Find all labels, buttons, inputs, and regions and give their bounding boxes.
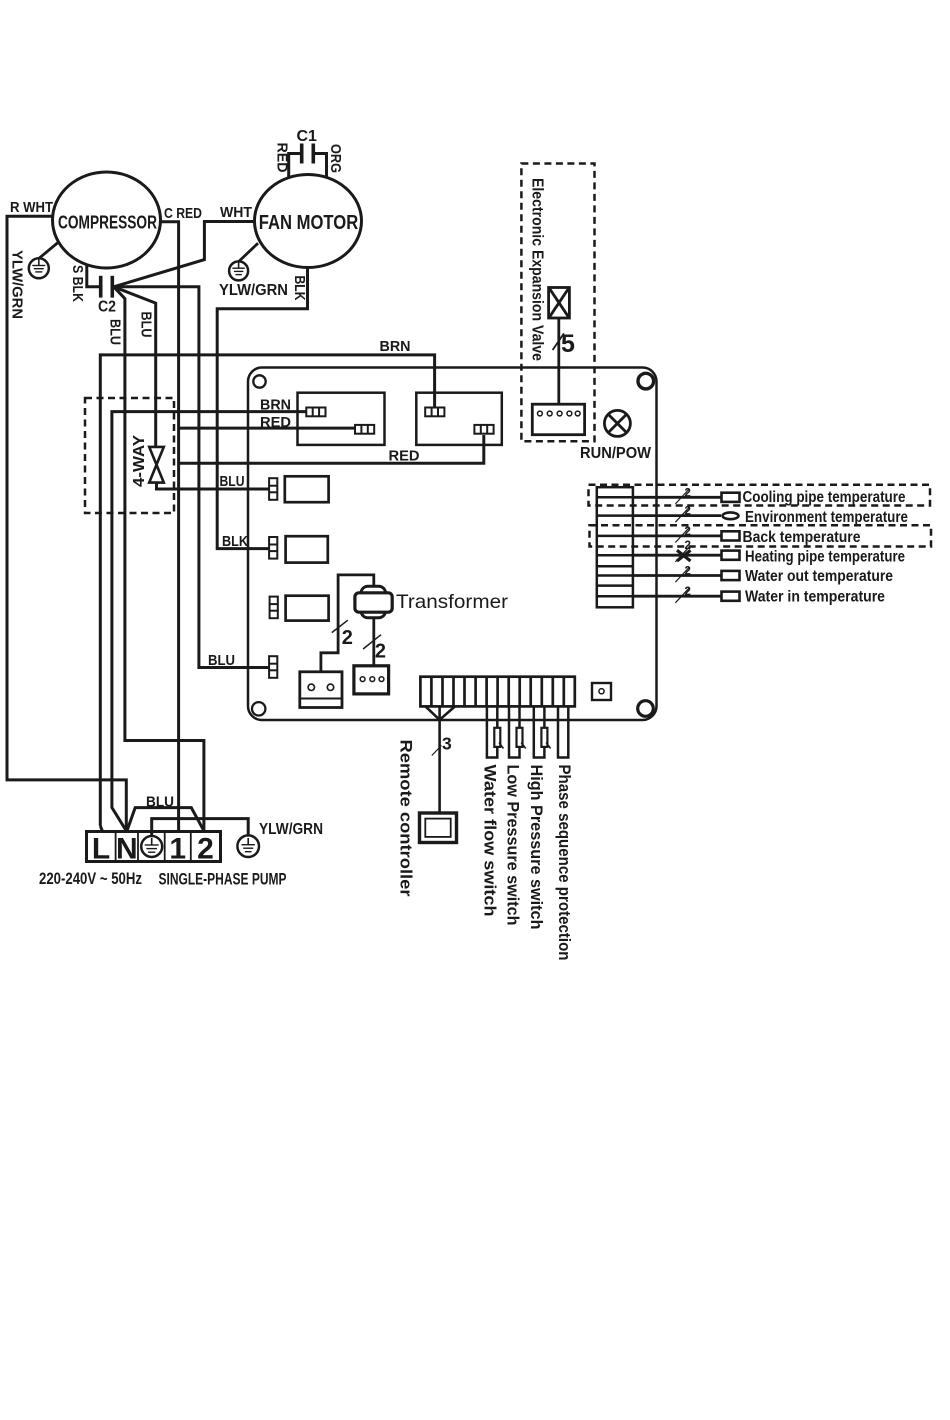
dashed box cooling sensor	[589, 485, 931, 506]
connector relay1 bottom 3-pin	[355, 425, 374, 434]
terminal block	[87, 832, 221, 862]
left connector 3	[270, 597, 278, 619]
svg-text:Cooling pipe temperature: Cooling pipe temperature	[743, 489, 906, 506]
slash 5	[553, 333, 564, 350]
svg-text:BLU: BLU	[107, 319, 124, 345]
svg-text:BLU: BLU	[220, 473, 245, 490]
svg-text:Environment temperature: Environment temperature	[745, 509, 908, 526]
switch symbol high pressure	[541, 728, 550, 749]
dashed box back sensor	[590, 525, 932, 546]
svg-text:BRN: BRN	[380, 338, 411, 355]
dashed box electronic expansion valve	[521, 164, 594, 442]
svg-text:FAN MOTOR: FAN MOTOR	[259, 212, 359, 234]
wire R WHT from compressor to left edge and down	[7, 216, 126, 831]
relay box 1	[298, 393, 385, 445]
svg-text:RED: RED	[389, 448, 420, 465]
sensor terminal stack	[597, 487, 633, 607]
svg-text:BLU: BLU	[138, 312, 155, 338]
svg-text:3: 3	[442, 734, 452, 754]
slash 3 remote	[432, 746, 442, 756]
capacitor C1	[289, 144, 327, 178]
wire BLU3 C2 to 4-way valve	[114, 287, 156, 447]
wire BLK fan motor to board connector 2	[217, 267, 307, 548]
pcb board outline	[248, 368, 657, 721]
wire RED into relay1 lower connector	[179, 427, 356, 430]
svg-text:BLK: BLK	[222, 533, 248, 550]
svg-text:R WHT: R WHT	[10, 199, 53, 216]
hole top-right	[638, 373, 654, 389]
dashed box 4-WAY	[85, 398, 174, 513]
2-hole connector box	[300, 672, 342, 708]
relay coil box 3	[286, 596, 329, 621]
svg-text:2: 2	[685, 526, 691, 538]
ground pump	[237, 835, 259, 857]
switch U wire 3 high pressure	[534, 706, 545, 757]
hole bottom-right	[638, 701, 654, 717]
svg-text:BLK: BLK	[291, 276, 308, 301]
svg-text:Water flow switch: Water flow switch	[480, 765, 498, 917]
sensor wires	[633, 497, 721, 596]
thermistor cooling	[722, 493, 740, 502]
wire BRN1 from N-drop into relay1 upper connector	[112, 412, 307, 831]
svg-text:4-WAY: 4-WAY	[131, 434, 148, 487]
svg-text:L: L	[92, 833, 110, 866]
svg-text:YLW/GRN: YLW/GRN	[259, 821, 323, 838]
ground compressor	[29, 243, 58, 279]
fan motor M2	[255, 175, 362, 268]
svg-text:2: 2	[685, 506, 691, 518]
svg-text:Water in temperature: Water in temperature	[745, 589, 885, 606]
thermistor environment (ellipse)	[723, 512, 739, 519]
svg-text:Phase sequence protection: Phase sequence protection	[555, 765, 573, 961]
svg-text:Remote controller: Remote controller	[397, 740, 416, 897]
transformer T1	[355, 586, 392, 618]
svg-text:1: 1	[169, 833, 186, 866]
svg-text:YLW/GRN: YLW/GRN	[219, 282, 288, 299]
svg-text:C RED: C RED	[164, 205, 202, 222]
svg-text:2: 2	[197, 833, 214, 866]
switch U wire 1 water flow	[487, 706, 497, 757]
wire pump earth	[152, 819, 249, 837]
wire transformer secondary bottom	[372, 617, 375, 666]
X mark heating wire	[677, 550, 691, 561]
svg-text:SINGLE-PHASE PUMP: SINGLE-PHASE PUMP	[159, 871, 287, 889]
LED RUN/POW	[604, 410, 630, 436]
svg-text:Heating pipe temperature: Heating pipe temperature	[745, 549, 905, 566]
remote controller box	[420, 813, 457, 843]
wire BLU jumper N to 2	[127, 808, 204, 831]
wire WHT from C2 to fan motor	[114, 222, 255, 287]
svg-text:Water out temperature: Water out temperature	[745, 568, 893, 585]
left connector 2	[269, 537, 277, 559]
svg-text:5: 5	[561, 330, 575, 358]
svg-text:Back temperature: Back temperature	[743, 529, 861, 546]
small square connector	[592, 683, 611, 700]
svg-text:BLU: BLU	[208, 652, 235, 669]
terminal ground circle	[141, 836, 162, 857]
svg-text:BRN: BRN	[260, 397, 291, 414]
hole top-left	[253, 375, 265, 387]
connector relay1 top 3-pin	[306, 408, 325, 417]
svg-text:N: N	[116, 833, 138, 866]
capacitor C2	[101, 276, 113, 298]
left connector 1	[269, 478, 277, 500]
svg-text:2: 2	[685, 487, 691, 499]
connector relay2 top 3-pin	[425, 408, 444, 417]
thermistor back	[722, 531, 740, 540]
4-way valve symbol	[149, 447, 164, 483]
EEV coil symbol	[549, 288, 570, 319]
comb connector CN	[420, 677, 574, 707]
switch U wire 4 phase sequence	[558, 706, 568, 757]
svg-text:2: 2	[685, 586, 691, 598]
svg-text:2: 2	[685, 566, 691, 578]
svg-text:RUN/POW: RUN/POW	[580, 445, 651, 462]
slash 2 left	[332, 620, 348, 632]
wire RED branch to relay2 lower connector	[179, 435, 484, 463]
connector relay2 bottom 3-pin	[474, 425, 493, 434]
hole bottom-left	[252, 702, 265, 715]
relay box 2	[416, 393, 502, 445]
svg-text:Transformer: Transformer	[396, 591, 509, 613]
thermistor water in	[722, 592, 740, 601]
svg-text:2: 2	[342, 627, 353, 649]
svg-text:High Pressure switch: High Pressure switch	[527, 765, 545, 930]
wire S BLK compressor to C2 left plate	[87, 264, 100, 287]
slash 2 bottom	[363, 635, 381, 649]
svg-text:RED: RED	[260, 414, 291, 431]
svg-text:2: 2	[375, 641, 386, 663]
remote controller wires converge	[426, 706, 456, 813]
left connector 4	[269, 656, 277, 678]
svg-text:220-240V ~ 50Hz: 220-240V ~ 50Hz	[39, 870, 142, 888]
svg-text:ORG: ORG	[327, 144, 344, 173]
svg-text:RED: RED	[274, 143, 291, 173]
switch U wire 2 low pressure	[509, 706, 520, 757]
svg-text:C2: C2	[98, 299, 116, 316]
wire EEV to 5-pin connector	[557, 318, 560, 404]
svg-text:WHT: WHT	[220, 204, 252, 221]
svg-text:S BLK: S BLK	[69, 265, 86, 302]
3-hole connector box	[354, 666, 389, 694]
ground fan motor	[229, 243, 258, 280]
thermistor heating	[722, 551, 740, 560]
svg-text:BLU: BLU	[146, 794, 174, 811]
wire 4-way valve to board connector 1	[157, 483, 270, 489]
wire BRN2 top from L-drop to relay2 upper connector	[100, 355, 434, 826]
wire transformer primary left	[321, 575, 374, 672]
svg-text:YLW/GRN: YLW/GRN	[9, 250, 26, 319]
svg-text:COMPRESSOR: COMPRESSOR	[58, 213, 157, 233]
switch symbol water flow	[494, 728, 503, 749]
thermistor water out	[722, 571, 740, 580]
5-pin connector	[532, 404, 584, 435]
relay coil box 1	[285, 476, 329, 502]
svg-text:Electronic Expansion Valve: Electronic Expansion Valve	[529, 178, 546, 361]
svg-text:Low Pressure switch: Low Pressure switch	[504, 765, 522, 926]
svg-text:C1: C1	[297, 128, 318, 145]
relay coil box 2	[286, 536, 328, 562]
wire BLU1 C2 to terminal 2	[114, 287, 204, 831]
slash marks with 2 on sensor wires	[675, 489, 689, 603]
switch symbol low pressure	[517, 728, 526, 749]
wire BLU2 C2 to board connector 4	[114, 287, 269, 668]
wire C RED from compressor right going down to RED net	[160, 222, 178, 832]
wire L terminal entry diagonal	[100, 826, 102, 832]
compressor M1	[53, 172, 161, 268]
